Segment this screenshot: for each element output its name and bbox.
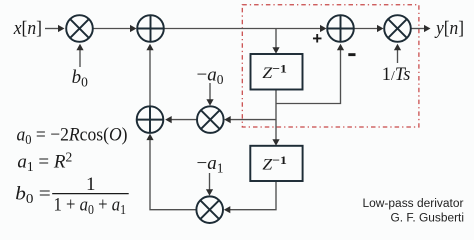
- wire -a1 arrow down into M4: [209, 173, 211, 191]
- wire branch left into M3: [229, 119, 276, 121]
- svg-text:a0 = −2Rcos(O): a0 = −2Rcos(O): [17, 125, 128, 148]
- wire A2 to M2: [354, 28, 379, 30]
- wire M1 to A1: [93, 28, 132, 30]
- delay block Z1: [251, 54, 303, 90]
- minus sign at A2: [348, 53, 355, 56]
- wire b0 arrow up into M1: [79, 49, 81, 68]
- svg-text:y[n]: y[n]: [434, 18, 464, 39]
- svg-text:1/Ts: 1/Ts: [382, 64, 411, 85]
- wire A1 to A2: [164, 28, 322, 30]
- multiplier M3 (-a0): [197, 106, 224, 133]
- multiplier M1 (b0): [66, 15, 93, 42]
- svg-text:x[n]: x[n]: [13, 18, 42, 39]
- multiplier M4 (-a1): [196, 196, 223, 223]
- adder A1: [137, 15, 164, 42]
- wire -a0 arrow down into M3: [209, 83, 211, 101]
- wire M4 output left and up into A3: [150, 139, 196, 210]
- svg-text:Low-pass derivator: Low-pass derivator: [363, 198, 464, 210]
- wire Z1 output down into Z2: [275, 90, 277, 142]
- wire x[n] to M1: [45, 28, 61, 30]
- wire M3 output into A3: [170, 119, 197, 121]
- red dash-dot highlight box: [242, 5, 419, 127]
- delay block Z2: [250, 146, 302, 181]
- adder A3 (feedback): [137, 106, 164, 133]
- adder A2 (derivator): [327, 15, 354, 42]
- svg-text:G. F. Gusberti: G. F. Gusberti: [391, 212, 465, 224]
- wire branch down into Z1: [275, 29, 277, 50]
- svg-text:+: +: [312, 29, 322, 48]
- multiplier M2 (1/Ts): [384, 15, 411, 42]
- wire M2 to y[n]: [411, 28, 426, 30]
- wire 1/Ts arrow up into M2: [397, 49, 399, 63]
- wire A3 output up into A1: [149, 49, 151, 107]
- svg-text:1: 1: [86, 174, 96, 195]
- svg-text:a1 = R2: a1 = R2: [17, 150, 72, 175]
- wire branch right and up into A2 minus input: [276, 49, 341, 104]
- wire Z2 output left into M4: [229, 181, 276, 210]
- svg-text:b0 =: b0 =: [15, 184, 50, 207]
